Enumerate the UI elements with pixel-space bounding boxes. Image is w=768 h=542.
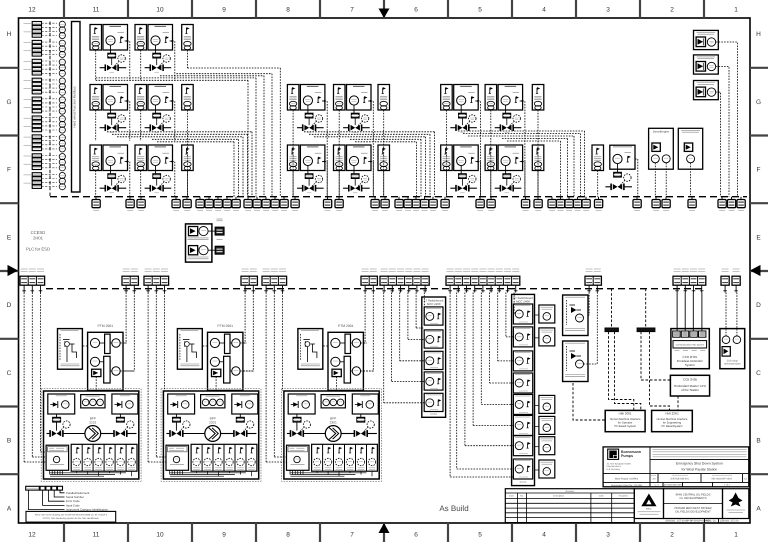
LT switchboard cabinet bbox=[422, 297, 446, 417]
svg-text:1: 1 bbox=[734, 532, 738, 539]
starter M12 aux drop wire bbox=[338, 171, 340, 197]
svg-text:PTM 2901: PTM 2901 bbox=[97, 324, 113, 328]
field drops group3 bbox=[266, 293, 286, 463]
pump2 process pipe bbox=[166, 433, 256, 435]
pump3 process pipe bbox=[287, 433, 377, 435]
pump3 suction contactor bbox=[293, 414, 301, 422]
svg-text:JVRTCB-DW-001: JVRTCB-DW-001 bbox=[670, 477, 689, 480]
centering mark right bbox=[750, 265, 761, 276]
field bus wire bbox=[46, 288, 705, 290]
starter M2 aux relay box bbox=[135, 25, 147, 51]
svg-text:CCB 2H05: CCB 2H05 bbox=[683, 377, 698, 381]
starter M5 main drop wire bbox=[325, 101, 328, 197]
remote IO box K3 drop wire bbox=[383, 110, 385, 197]
pump1 discharge valve box bbox=[112, 394, 138, 414]
svg-text:JV. Herr Bergham GmbH: JV. Herr Bergham GmbH bbox=[607, 462, 632, 465]
svg-text:Co. DEVELOPMENTS: Co. DEVELOPMENTS bbox=[679, 497, 706, 500]
svg-text:Human Machine Interface: Human Machine Interface bbox=[610, 418, 641, 421]
LT feeder cell 2 bbox=[424, 330, 443, 348]
row2 wire bundle right bbox=[458, 131, 585, 197]
starter M4 main drop wire bbox=[172, 101, 175, 141]
starter M4 contactor bbox=[153, 113, 160, 117]
reset station box bbox=[186, 224, 212, 262]
diesel engine box bbox=[649, 128, 674, 169]
starter M14 coil link wire bbox=[505, 166, 507, 174]
bus bar 1 to HMI wires bbox=[609, 332, 641, 411]
HT load box 5 bbox=[535, 395, 555, 413]
starter M9 actuated valve bbox=[100, 178, 127, 193]
bus bar 2 to HMI2 wire bbox=[650, 332, 670, 411]
pump1 PTM logic box bbox=[88, 324, 123, 390]
starter M3 limit switch circle bbox=[115, 115, 126, 126]
svg-text:B: B bbox=[7, 438, 11, 445]
starter M2 coil link wire bbox=[155, 45, 157, 53]
starter M5 actuated valve bbox=[297, 118, 324, 133]
svg-text:for Engineering: for Engineering bbox=[663, 422, 682, 425]
border row letters right bbox=[756, 31, 761, 512]
starter M8 limit switch circle bbox=[510, 115, 521, 126]
pump3 main pump BFP bbox=[325, 417, 341, 442]
starter M8 contactor bbox=[503, 113, 510, 117]
pump1 discharge valve bbox=[114, 430, 127, 437]
pump3 skid outer box bbox=[282, 389, 382, 482]
HT feeder cell 7 bbox=[513, 436, 532, 456]
starter M11 main box bbox=[300, 145, 325, 171]
starter M6 aux drop wire bbox=[338, 110, 340, 197]
starter M7 contactor bbox=[459, 113, 466, 117]
LT feeder cell 4 bbox=[424, 372, 443, 390]
starter M1 aux drop wire bbox=[95, 50, 97, 81]
starter M5 aux drop wire bbox=[292, 110, 294, 197]
svg-text:Universal Alarm: Universal Alarm bbox=[724, 363, 741, 366]
starter M5 limit switch circle bbox=[312, 115, 323, 126]
svg-text:7: 7 bbox=[350, 7, 354, 14]
svg-text:PC BasedSystem: PC BasedSystem bbox=[661, 425, 683, 428]
starter M9 contactor bbox=[108, 174, 115, 178]
pump1 sensor cell row bbox=[71, 444, 137, 471]
svg-text:10: 10 bbox=[156, 7, 164, 14]
row1 wire bundle bbox=[96, 68, 281, 197]
HT load box 1 bbox=[535, 305, 555, 323]
field drops PTM3 bbox=[364, 293, 374, 372]
starter M14 contactor bbox=[503, 174, 510, 178]
svg-text:NIOC: NIOC bbox=[646, 508, 652, 511]
starter M9 coil link wire bbox=[110, 166, 112, 174]
CCR riser wires bbox=[677, 293, 702, 332]
svg-text:8: 8 bbox=[286, 532, 290, 539]
starter M13 coil link wire bbox=[460, 166, 462, 174]
svg-text:These refer to the drawing 257: These refer to the drawing 257-20-WP-BP-… bbox=[34, 514, 107, 517]
starter M4 aux relay box bbox=[135, 85, 147, 111]
svg-text:Revision: Revision bbox=[566, 490, 575, 493]
svg-text:12: 12 bbox=[28, 532, 36, 539]
starter M13 aux drop wire bbox=[445, 171, 447, 197]
starter M15 limit switch circle bbox=[620, 174, 631, 185]
pump1 discharge solenoid circle bbox=[123, 421, 134, 432]
pump3 discharge valve box bbox=[352, 394, 378, 414]
company logo cell 1 bbox=[634, 489, 663, 519]
svg-text:PAYDAR BRO WEST PAYDAR: PAYDAR BRO WEST PAYDAR bbox=[674, 507, 711, 510]
border row letters left bbox=[6, 31, 11, 512]
starter M11 aux relay box bbox=[287, 145, 299, 171]
svg-text:A: A bbox=[7, 505, 12, 512]
bus terminal blocks bbox=[92, 197, 745, 211]
starter M12 actuated valve bbox=[343, 178, 370, 193]
starter M12 main drop wire bbox=[371, 162, 374, 197]
pump2 skid outer box bbox=[161, 389, 261, 482]
svg-text:6: 6 bbox=[414, 7, 418, 14]
HT feeder cell 1 bbox=[513, 304, 532, 324]
starter M2 main drop wire bbox=[172, 41, 175, 81]
svg-text:1: 1 bbox=[734, 7, 738, 14]
generator interface box bbox=[678, 128, 702, 169]
pump1 suction valve box bbox=[48, 394, 75, 414]
signal bus bar 1 bbox=[605, 328, 619, 332]
HT load box 2 bbox=[535, 328, 555, 346]
starter M9 aux relay box bbox=[90, 145, 102, 171]
pump2 PTM out wires bbox=[240, 343, 254, 371]
starter M14 main box bbox=[498, 145, 522, 171]
svg-text:System: System bbox=[685, 363, 696, 367]
svg-text:West Paydar Unit/Plot: West Paydar Unit/Plot bbox=[615, 478, 639, 481]
svg-text:REV.: D1: REV.: D1 bbox=[706, 520, 716, 523]
pump3 collector wires bbox=[290, 471, 372, 476]
svg-text:JOB NO.: 257-20: JOB NO.: 257-20 bbox=[720, 520, 739, 523]
starter M7 aux relay box bbox=[441, 85, 453, 111]
svg-text:9: 9 bbox=[222, 7, 226, 14]
HT feeder cell 3 bbox=[513, 351, 532, 371]
svg-text:4th September 2007: 4th September 2007 bbox=[664, 484, 683, 487]
svg-text:MCC 2H00: MCC 2H00 bbox=[516, 299, 530, 303]
svg-text:D: D bbox=[7, 302, 12, 309]
HT load box 7 bbox=[535, 437, 555, 455]
svg-text:CCESD: CCESD bbox=[31, 230, 46, 235]
starter M10 main drop wire bbox=[172, 162, 175, 197]
pump1 collector wires bbox=[50, 471, 132, 476]
legend note box bbox=[26, 511, 116, 522]
starter M14 main drop wire bbox=[522, 162, 525, 197]
starter M15 contactor bbox=[614, 164, 621, 177]
svg-text:for Operator: for Operator bbox=[618, 422, 633, 425]
control building box CB3 bbox=[694, 81, 719, 100]
remote IO box K1 drop elbow bbox=[186, 50, 188, 68]
ESD panel riser wires bbox=[726, 293, 737, 336]
starter M6 actuated valve bbox=[343, 118, 370, 133]
drawing number row bbox=[634, 519, 749, 524]
svg-text:Accepted: Accepted bbox=[618, 495, 628, 498]
svg-text:for West Paydar Station: for West Paydar Station bbox=[682, 468, 718, 472]
pump2 suction valve bbox=[170, 422, 183, 437]
svg-text:A: A bbox=[756, 505, 761, 512]
svg-text:E: E bbox=[756, 234, 761, 241]
remote IO box K7 bbox=[532, 145, 544, 171]
svg-text:DieselEngine: DieselEngine bbox=[653, 130, 670, 134]
HT feeder cell 8 bbox=[513, 459, 532, 479]
title block info row 2 bbox=[603, 482, 749, 486]
svg-text:G: G bbox=[6, 99, 11, 106]
title block main box bbox=[603, 447, 749, 487]
svg-text:5: 5 bbox=[478, 532, 482, 539]
pump3 panel link wire bbox=[323, 345, 328, 347]
pump3 suction valve box bbox=[288, 394, 315, 414]
starter M13 aux relay box bbox=[441, 145, 453, 171]
starter M1 actuated valve bbox=[100, 58, 127, 73]
starter M2 aux drop wire bbox=[140, 50, 142, 81]
starter M2 actuated valve bbox=[145, 58, 172, 73]
svg-text:2H01: 2H01 bbox=[33, 236, 44, 241]
pump1 suction valve bbox=[50, 422, 63, 437]
svg-text:OIL FIELDS DEVELOPMENT: OIL FIELDS DEVELOPMENT bbox=[675, 511, 711, 514]
starter M10 actuated valve bbox=[145, 178, 172, 193]
svg-text:E: E bbox=[7, 234, 12, 241]
remote IO box K3 bbox=[378, 85, 390, 111]
svg-text:4: 4 bbox=[542, 7, 546, 14]
starter M15 drop wire bbox=[635, 159, 638, 197]
client name cell bbox=[664, 489, 723, 519]
svg-text:Pumps: Pumps bbox=[621, 454, 633, 458]
remote IO box K4 bbox=[532, 85, 544, 111]
pump2 discharge contactor bbox=[237, 414, 245, 422]
starter M3 actuated valve bbox=[100, 118, 127, 133]
starter M5 main box bbox=[300, 85, 325, 111]
svg-text:XXXX: XXXX bbox=[430, 413, 437, 416]
svg-text:PTM 2901: PTM 2901 bbox=[338, 324, 354, 328]
generator interface drop wire bbox=[690, 163, 692, 197]
title block disclaimer text bbox=[650, 449, 749, 459]
row2 wire bundle middle bbox=[304, 132, 435, 197]
starter M8 actuated valve bbox=[495, 118, 522, 133]
starter M3 coil link wire bbox=[110, 105, 112, 113]
starter M12 main box bbox=[347, 145, 372, 171]
pump3 discharge valve bbox=[354, 430, 367, 437]
marshalling dashed riser bbox=[49, 22, 51, 197]
svg-text:11: 11 bbox=[93, 532, 100, 539]
svg-text:8: 8 bbox=[286, 7, 290, 14]
control building box CB2 bbox=[694, 55, 719, 74]
pump3 discharge contactor bbox=[357, 414, 365, 422]
pump3 PTM drop wire bbox=[336, 377, 338, 391]
starter M14 aux drop wire bbox=[490, 171, 492, 197]
svg-text:6: 6 bbox=[414, 532, 418, 539]
svg-text:As Build: As Build bbox=[439, 504, 468, 513]
HT feeder cell 2 bbox=[513, 327, 532, 347]
pump2 junction box bbox=[166, 445, 189, 474]
starter M15 actuated valve bbox=[605, 184, 632, 191]
title block project title bbox=[676, 462, 723, 472]
pump2 PTM logic box bbox=[208, 324, 243, 390]
pump2 PTM drop wire bbox=[215, 377, 217, 391]
svg-text:MCC 2400: MCC 2400 bbox=[427, 302, 441, 306]
starter M7 coil link wire bbox=[460, 105, 462, 113]
starter M5 aux relay box bbox=[287, 85, 299, 111]
border column numbers top bbox=[28, 7, 738, 14]
svg-text:Obernkirchen 1: Obernkirchen 1 bbox=[607, 465, 623, 468]
signal bus bar 2 bbox=[637, 328, 655, 332]
starter M14 limit switch circle bbox=[510, 175, 521, 186]
row2 wire bundle left bbox=[107, 132, 252, 197]
pump2 panel link wire bbox=[202, 345, 207, 347]
svg-text:F: F bbox=[7, 167, 11, 174]
starter M6 limit switch circle bbox=[358, 115, 369, 126]
relay coil circles column bbox=[59, 21, 65, 190]
starter M9 main drop wire bbox=[127, 162, 130, 197]
reset terminal block 2 bbox=[208, 246, 224, 254]
pump2 suction contactor bbox=[173, 414, 181, 422]
border column numbers bottom bbox=[28, 532, 738, 539]
field drops group1 bbox=[24, 293, 46, 463]
starter M1 contactor bbox=[108, 53, 115, 57]
svg-text:12: 12 bbox=[28, 7, 36, 14]
pump1 discharge contactor bbox=[117, 414, 125, 422]
HW to HMI wire bbox=[573, 383, 605, 420]
field drops group2 bbox=[148, 293, 166, 463]
starter M12 coil link wire bbox=[353, 166, 355, 174]
starter M13 limit switch circle bbox=[465, 175, 476, 186]
svg-text:2: 2 bbox=[670, 532, 674, 539]
starter M8 main box bbox=[498, 85, 522, 111]
pump1 instrument box bbox=[81, 395, 105, 408]
starter M5 contactor bbox=[305, 113, 312, 117]
legend leader lines bbox=[29, 490, 109, 512]
starter M12 aux relay box bbox=[334, 145, 346, 171]
LT feeder cell 1 bbox=[424, 307, 443, 325]
svg-text:C: C bbox=[756, 370, 761, 377]
remote IO box K8 bbox=[592, 145, 604, 171]
starter M1 aux relay box bbox=[90, 25, 102, 51]
field terminal stubs bbox=[22, 285, 738, 292]
starter M9 main box bbox=[103, 145, 128, 171]
svg-text:D: D bbox=[756, 302, 761, 309]
pump3 instrument box bbox=[321, 395, 345, 408]
starter M1 main box bbox=[103, 25, 128, 51]
pump2 discharge valve bbox=[234, 430, 247, 437]
pump3 discharge solenoid circle bbox=[364, 421, 375, 432]
ESD1 label bbox=[217, 239, 223, 241]
HT feeder cell 5 bbox=[513, 394, 532, 414]
svg-text:Communication ESD System: Communication ESD System bbox=[676, 344, 704, 347]
reset terminal block 1 bbox=[208, 227, 224, 235]
svg-text:5: 5 bbox=[478, 7, 482, 14]
hand switch box HW2 bbox=[563, 341, 588, 382]
svg-text:B: B bbox=[756, 438, 760, 445]
centering mark top bbox=[379, 9, 390, 19]
pump2 local panel box bbox=[177, 329, 202, 370]
starter M11 coil link wire bbox=[307, 166, 309, 174]
pump1 junction box bbox=[46, 445, 69, 474]
control building box CB1 bbox=[694, 30, 719, 49]
starter M4 coil link wire bbox=[155, 105, 157, 113]
starter M12 limit switch circle bbox=[358, 175, 369, 186]
HMI operator box bbox=[605, 410, 645, 431]
pump3 suction solenoid circle bbox=[300, 421, 311, 432]
border row tick marks bbox=[0, 68, 768, 474]
starter M15 main box bbox=[610, 145, 635, 169]
starter M6 coil link wire bbox=[353, 105, 355, 113]
pump2 discharge solenoid circle bbox=[243, 421, 254, 432]
main ESD bus wire bbox=[50, 196, 747, 198]
remote IO box K6 bbox=[378, 145, 390, 171]
starter M2 contactor bbox=[153, 53, 160, 57]
starter M14 aux relay box bbox=[485, 145, 497, 171]
svg-text:No.: No. bbox=[520, 495, 524, 498]
svg-text:H: H bbox=[7, 31, 12, 38]
pump1 local panel box bbox=[58, 329, 83, 370]
control building box CB3 route wire bbox=[716, 92, 721, 197]
HT load box 6 bbox=[535, 416, 555, 434]
title block logo cell bbox=[607, 447, 651, 474]
control building box CB2 route wire bbox=[716, 67, 729, 197]
pump2 suction solenoid circle bbox=[179, 421, 190, 432]
hand switch riser wires bbox=[584, 293, 598, 365]
starter M11 limit switch circle bbox=[312, 175, 323, 186]
legend tag blocks bbox=[26, 486, 63, 490]
svg-text:2: 2 bbox=[670, 7, 674, 14]
company logo cell 2 bbox=[723, 489, 749, 519]
starter M11 aux drop wire bbox=[292, 171, 294, 197]
starter M8 aux drop wire bbox=[490, 110, 492, 197]
field drops PTM2 bbox=[243, 293, 253, 372]
svg-text:7: 7 bbox=[350, 532, 354, 539]
pump2 main pump BFP bbox=[205, 417, 221, 442]
svg-text:Hard wired Function Multibus: Hard wired Function Multibus bbox=[73, 86, 77, 128]
starter M11 main drop wire bbox=[325, 162, 328, 197]
svg-text:Human Machine Interface: Human Machine Interface bbox=[657, 418, 688, 421]
svg-text:of the Station: of the Station bbox=[681, 388, 699, 392]
starter M10 aux drop wire bbox=[140, 171, 142, 197]
HMI engineering box bbox=[652, 410, 693, 431]
svg-text:XXXX: XXXX bbox=[520, 481, 527, 484]
svg-text:9: 9 bbox=[222, 532, 226, 539]
HT feeder cell 6 bbox=[513, 415, 532, 435]
PLC input terminal column X1 bbox=[24, 22, 58, 189]
centering mark bottom bbox=[379, 523, 390, 533]
starter M8 main drop wire bbox=[522, 101, 525, 197]
starter M10 contactor bbox=[153, 174, 160, 178]
starter M10 limit switch circle bbox=[160, 175, 171, 186]
remote IO box K5 bbox=[182, 145, 194, 171]
svg-text:3: 3 bbox=[606, 532, 610, 539]
svg-text:H: H bbox=[756, 31, 761, 38]
ESD universal alarm panel bbox=[720, 329, 745, 369]
starter M4 aux drop wire bbox=[140, 110, 142, 141]
svg-text:2101: 2101 bbox=[89, 420, 96, 424]
starter M3 aux drop wire bbox=[95, 110, 97, 141]
starter M10 coil link wire bbox=[155, 166, 157, 174]
starter M8 aux relay box bbox=[485, 85, 497, 111]
bus bar 2 to CCB wire bbox=[641, 332, 670, 380]
HT load box 8 bbox=[535, 460, 555, 478]
pump2 suction valve box bbox=[168, 394, 195, 414]
svg-text:Emergency Shut Down System: Emergency Shut Down System bbox=[676, 462, 723, 466]
starter M4 actuated valve bbox=[145, 118, 172, 133]
remote IO box K7 drop wire bbox=[537, 171, 539, 197]
svg-text:PCP70, T&D Numbering System f: PCP70, T&D Numbering System for the T&D … bbox=[43, 517, 100, 520]
LT feeder cell 5 bbox=[424, 393, 443, 411]
hand switch box HW1 bbox=[563, 295, 588, 336]
starter M11 contactor bbox=[305, 174, 312, 178]
svg-text:10: 10 bbox=[156, 532, 164, 539]
svg-text:PC Based System: PC Based System bbox=[614, 425, 637, 428]
starter M7 actuated valve bbox=[450, 118, 477, 133]
starter M13 main drop wire bbox=[478, 162, 481, 197]
svg-text:2201: 2201 bbox=[209, 420, 216, 424]
svg-text:HMI 22R1: HMI 22R1 bbox=[665, 412, 679, 416]
svg-text:Bornemann: Bornemann bbox=[621, 450, 641, 454]
hard wired function bus bar bbox=[72, 22, 81, 193]
starter M7 main box bbox=[454, 85, 479, 111]
pump3 sensor cell row bbox=[312, 444, 378, 471]
diesel engine box drop wires bbox=[655, 163, 666, 197]
